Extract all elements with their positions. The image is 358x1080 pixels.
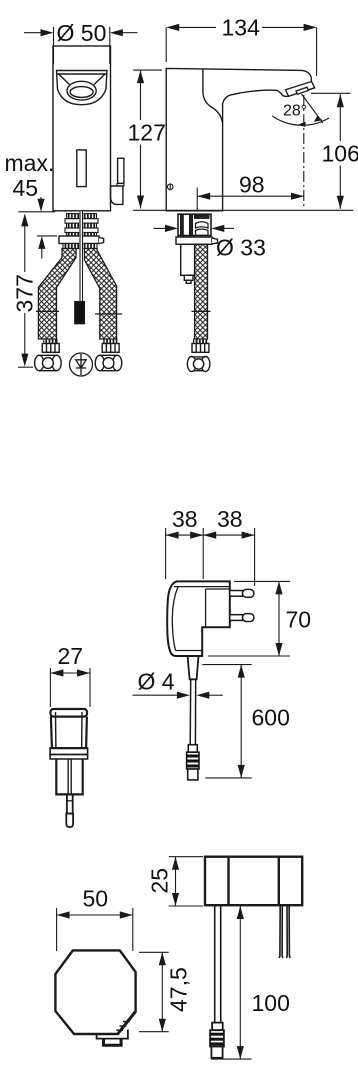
junction box front view octagon bbox=[55, 950, 135, 1034]
faucet front left hose bbox=[38, 249, 76, 340]
spray angle lines bbox=[272, 94, 329, 209]
svg-text:106: 106 bbox=[322, 141, 358, 167]
svg-text:Ø 50: Ø 50 bbox=[57, 20, 107, 46]
junction box wires bbox=[279, 905, 290, 958]
dimension 38 38 bbox=[166, 506, 255, 586]
faucet side solenoid valve bbox=[181, 244, 195, 283]
faucet front sensor cable bbox=[75, 211, 85, 324]
faucet side step line bbox=[203, 68, 222, 122]
dimension max 45 bbox=[5, 150, 58, 259]
faucet front threaded shank bbox=[65, 214, 98, 236]
hose tick mark side bbox=[192, 310, 211, 312]
faucet front left hose fitting bbox=[35, 339, 62, 371]
svg-text:100: 100 bbox=[252, 990, 290, 1016]
angle label 28deg bbox=[283, 103, 307, 120]
dimension 127 bbox=[128, 70, 166, 208]
faucet side hose bbox=[195, 244, 208, 339]
faucet side screw detail bbox=[167, 183, 173, 190]
power supply front view bbox=[50, 709, 88, 794]
dimension 106 bbox=[311, 93, 358, 209]
junction box bottom connector bbox=[97, 1030, 128, 1046]
svg-text:70: 70 bbox=[286, 607, 312, 633]
svg-text:45: 45 bbox=[13, 175, 39, 201]
svg-text:Ø 4: Ø 4 bbox=[138, 669, 175, 695]
faucet front view body bbox=[53, 46, 111, 211]
faucet side view silhouette bbox=[166, 68, 314, 210]
dimension 25 bbox=[147, 857, 204, 906]
junction box corner clamp bbox=[116, 1012, 135, 1034]
svg-text:600: 600 bbox=[252, 705, 290, 731]
junction box cable bbox=[215, 905, 221, 1022]
psu cable bbox=[190, 679, 196, 744]
svg-text:50: 50 bbox=[83, 886, 109, 912]
svg-text:47,5: 47,5 bbox=[166, 967, 192, 1012]
faucet side aerator bbox=[286, 82, 315, 97]
faucet front right hose bbox=[85, 249, 117, 340]
svg-text:38: 38 bbox=[172, 506, 198, 532]
svg-text:28°: 28° bbox=[283, 103, 307, 120]
faucet side flange bbox=[176, 237, 218, 244]
dimension D4 bbox=[133, 669, 223, 699]
hose tick marks front bbox=[36, 311, 122, 314]
dimension 70 bbox=[208, 581, 311, 656]
junction box cable connector bbox=[210, 1023, 224, 1058]
faucet front side outlet bbox=[111, 158, 125, 204]
dimension 100 bbox=[211, 906, 290, 1059]
svg-text:max.: max. bbox=[5, 150, 55, 176]
svg-text:27: 27 bbox=[58, 643, 84, 669]
svg-text:134: 134 bbox=[222, 15, 261, 41]
psu jack connector bbox=[187, 745, 199, 780]
faucet front spout housing bbox=[56, 71, 108, 105]
check valve symbol bbox=[70, 353, 93, 376]
svg-text:Ø 33: Ø 33 bbox=[216, 235, 266, 261]
dimension D33 bbox=[154, 225, 266, 261]
dimension 134 bbox=[166, 15, 316, 76]
baseline under side view bbox=[133, 209, 353, 211]
svg-text:377: 377 bbox=[12, 274, 38, 312]
dimension 47.5 bbox=[139, 952, 192, 1031]
svg-text:98: 98 bbox=[239, 171, 265, 197]
faucet front right hose fitting bbox=[95, 339, 122, 371]
dimension 377 bbox=[12, 213, 38, 367]
junction box side view bbox=[205, 857, 302, 906]
faucet front mounting flange bbox=[59, 236, 104, 249]
dimension 98 bbox=[197, 171, 304, 209]
dimension 600 bbox=[202, 665, 290, 778]
power supply front pin bbox=[66, 794, 73, 827]
svg-text:38: 38 bbox=[217, 506, 243, 532]
dimension 50 bbox=[57, 886, 133, 952]
dimension 27 bbox=[50, 643, 90, 707]
power supply pins bbox=[230, 589, 254, 621]
svg-text:25: 25 bbox=[147, 868, 173, 894]
faucet side hose fitting bbox=[187, 339, 210, 372]
dimension D50 bbox=[24, 20, 138, 64]
svg-text:127: 127 bbox=[128, 120, 166, 146]
psu strain relief bbox=[188, 656, 199, 679]
faucet side threaded shank bbox=[178, 214, 211, 235]
faucet front sensor window bbox=[77, 150, 86, 187]
power supply side view body bbox=[167, 581, 230, 656]
